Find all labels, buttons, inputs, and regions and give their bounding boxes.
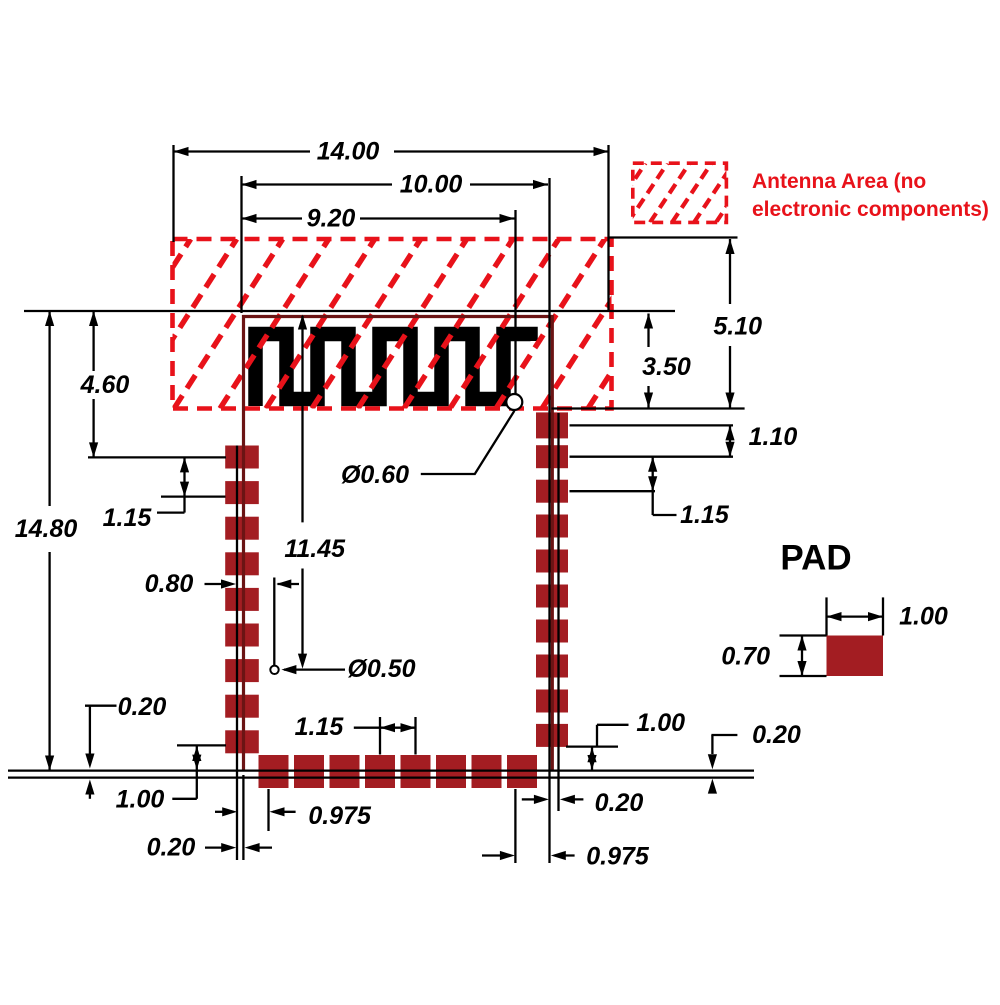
extension line 14.00 left (172, 145, 174, 242)
via 0.60 callout (341, 411, 514, 489)
svg-text:3.50: 3.50 (642, 353, 691, 381)
svg-text:1.15: 1.15 (680, 501, 730, 529)
PAD detail dim 0.70 (721, 636, 826, 677)
dim 14.00 (174, 138, 609, 166)
extension line 9.20 right via (514, 210, 516, 397)
module right edge (551, 315, 554, 771)
bottom pad row (259, 755, 538, 788)
extension line 9.20 10.00 left (240, 176, 242, 313)
svg-text:0.70: 0.70 (721, 643, 770, 671)
PAD detail pad square (827, 636, 884, 677)
dim 0.975 right (482, 843, 650, 871)
svg-text:1.10: 1.10 (749, 423, 798, 451)
dim 9.20 (242, 205, 515, 233)
PAD detail dim 1.00 (827, 597, 948, 635)
legend text (752, 170, 989, 221)
svg-text:Ø0.50: Ø0.50 (347, 655, 415, 683)
dim 11.45 (284, 315, 346, 669)
svg-text:PAD: PAD (780, 539, 851, 578)
svg-text:0.975: 0.975 (308, 802, 372, 830)
right pad column (536, 412, 568, 747)
dim 1.00 right (566, 709, 685, 770)
extension line 14.00 right (607, 145, 609, 312)
top reference line (24, 310, 675, 312)
dim 1.00 left (116, 745, 226, 813)
dim 0.20 right (708, 721, 801, 794)
dim 1.15 left (103, 457, 189, 532)
bottom module-edge line (8, 769, 754, 771)
dim 14.80 (15, 311, 78, 771)
svg-text:9.20: 9.20 (307, 205, 356, 233)
dim 0.975 left (215, 802, 372, 830)
via 0.50 circle (270, 666, 278, 674)
svg-text:1.00: 1.00 (636, 709, 685, 737)
extension line 0.975 right (514, 789, 516, 863)
extension line 10.00 right / module (548, 178, 550, 863)
svg-text:0.975: 0.975 (586, 843, 650, 871)
pad row2 reference line left (161, 495, 226, 497)
svg-text:electronic components): electronic components) (752, 198, 989, 221)
extension line left of module edge (236, 446, 238, 861)
module top edge (242, 315, 552, 318)
svg-text:0.20: 0.20 (752, 721, 801, 749)
dim 0.80 (145, 570, 299, 666)
dim 1.15 bottom (295, 713, 416, 755)
bottom pad-edge line (8, 776, 754, 778)
antenna keep-out area hatched box (82, 239, 697, 409)
pad row1 reference line left (88, 456, 226, 458)
svg-text:1.00: 1.00 (116, 786, 165, 814)
module left edge (242, 315, 245, 771)
svg-text:4.60: 4.60 (80, 371, 130, 399)
svg-text:0.20: 0.20 (118, 693, 167, 721)
dim 3.50 (642, 314, 691, 408)
svg-text:5.10: 5.10 (713, 313, 762, 341)
svg-text:10.00: 10.00 (400, 171, 463, 199)
extension line module edge below (242, 775, 244, 860)
dim 10.00 (242, 171, 549, 199)
dim 0.20 lower right (522, 789, 644, 817)
dim 0.20 bottom-left (147, 834, 272, 862)
dim 1.10 (570, 423, 798, 457)
svg-text:0.80: 0.80 (145, 570, 194, 598)
extension line right of module edge (557, 413, 559, 811)
extension line 0.975 left (267, 789, 269, 831)
svg-text:11.45: 11.45 (284, 535, 346, 563)
via 0.50 callout (281, 655, 415, 683)
svg-text:0.20: 0.20 (147, 834, 196, 862)
svg-text:1.00: 1.00 (899, 603, 948, 631)
antenna meander trace (256, 334, 531, 406)
svg-text:1.15: 1.15 (103, 504, 153, 532)
dim 4.60 (80, 311, 130, 457)
dim 1.15 right (570, 457, 730, 529)
via 0.60 circle (506, 394, 522, 410)
svg-text:0.20: 0.20 (595, 789, 644, 817)
dim 0.20 top-left (85, 693, 166, 799)
dim 5.10 (609, 238, 763, 408)
svg-text:14.80: 14.80 (15, 515, 78, 543)
svg-text:14.00: 14.00 (317, 138, 380, 166)
svg-text:1.15: 1.15 (295, 713, 345, 741)
legend hatched box (606, 163, 756, 222)
svg-text:Ø0.60: Ø0.60 (341, 461, 409, 489)
svg-text:Antenna Area (no: Antenna Area (no (752, 170, 926, 193)
left pad column (225, 446, 259, 754)
antenna bottom reference line right (552, 407, 745, 409)
